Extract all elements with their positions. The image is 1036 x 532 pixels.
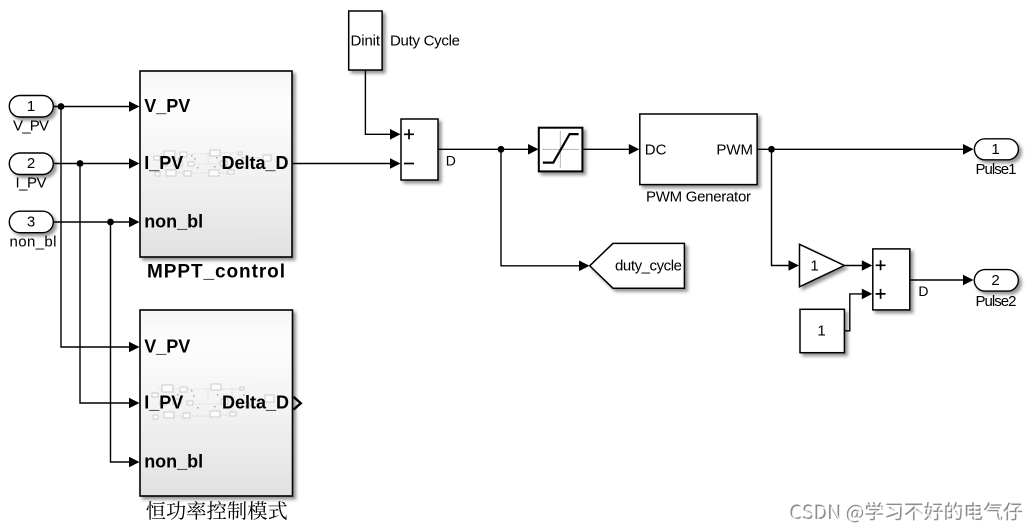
wire PWM to Pulse1: [757, 144, 973, 155]
svg-text:D: D: [446, 152, 456, 168]
outport 1 Pulse1: [974, 139, 1018, 178]
svg-text:1: 1: [27, 98, 35, 115]
wire MPPT Delta_D to Sum1 minus input: [293, 158, 401, 169]
gain block: [800, 244, 845, 286]
wire port3 branch to block2 non_bl: [111, 222, 140, 467]
wire branch to Gain: [772, 149, 800, 270]
block2 name label (Chinese): [146, 501, 286, 520]
svg-text:Dinit: Dinit: [351, 32, 381, 49]
svg-text:I_PV: I_PV: [144, 393, 183, 413]
constant Dinit: [349, 11, 382, 70]
wire port2 to MPPT I_PV: [53, 158, 140, 169]
sum Sum1: [401, 119, 438, 180]
svg-text:Duty Cycle: Duty Cycle: [390, 32, 460, 49]
svg-text:PWM: PWM: [716, 141, 753, 158]
svg-text:MPPT_control: MPPT_control: [147, 261, 285, 282]
wire branch to goto duty_cycle: [501, 149, 590, 271]
svg-text:non_bl: non_bl: [144, 452, 203, 472]
junction dot port3 branch: [107, 219, 114, 226]
subsystem MPPT_control: [140, 71, 292, 282]
saturation block: [539, 128, 583, 172]
wire Gain to Sum2: [844, 260, 872, 271]
outport 2 Pulse2: [974, 270, 1018, 310]
inport 2 I_PV: [9, 153, 53, 192]
junction dot after PWM: [768, 146, 775, 153]
wire port1 branch to block2 V_PV: [61, 107, 140, 353]
unconnected output port arrow of block2 Delta_D: [294, 397, 301, 410]
inport 3 non_bl: [9, 211, 56, 250]
svg-text:Pulse2: Pulse2: [976, 293, 1017, 310]
svg-text:Delta_D: Delta_D: [222, 393, 289, 413]
inport 1 V_PV: [9, 96, 53, 135]
svg-text:D: D: [918, 283, 928, 299]
svg-text:duty_cycle: duty_cycle: [615, 258, 682, 275]
wire port2 branch to block2 I_PV: [80, 164, 140, 409]
svg-text:I_PV: I_PV: [16, 175, 47, 192]
svg-text:non_bl: non_bl: [10, 233, 57, 250]
svg-text:2: 2: [27, 155, 35, 172]
svg-text:Delta_D: Delta_D: [221, 153, 288, 173]
svg-text:1: 1: [810, 258, 818, 275]
svg-text:I_PV: I_PV: [144, 153, 183, 173]
wire Dinit to Sum1 plus input: [365, 71, 400, 140]
wire Sum2 to Pulse2: [910, 275, 974, 286]
svg-text:2: 2: [991, 272, 999, 289]
svg-text:V_PV: V_PV: [13, 118, 49, 135]
subsystem PWM Generator: [640, 114, 757, 205]
wire port3 to MPPT non_bl: [53, 217, 140, 228]
svg-text:1: 1: [817, 322, 825, 339]
wire Constant to Sum2 lower plus: [844, 289, 872, 331]
svg-text:PWM Generator: PWM Generator: [646, 188, 751, 205]
junction dot port1 branch: [58, 103, 65, 110]
goto tag duty_cycle: [590, 243, 685, 288]
svg-text:1: 1: [991, 141, 999, 158]
svg-text:Pulse1: Pulse1: [976, 161, 1017, 178]
watermark CSDN @xuexibuhaode dianqizai: [790, 502, 1023, 524]
wire Saturation to PWM Generator: [582, 144, 639, 155]
svg-text:3: 3: [27, 214, 35, 231]
subsystem block2 constant-power control mode: [140, 310, 293, 496]
sum Sum2: [873, 249, 910, 310]
svg-text:V_PV: V_PV: [144, 96, 190, 116]
wire Sum1 to Saturation: [438, 144, 539, 155]
wire port1 to MPPT V_PV: [53, 101, 140, 112]
svg-text:DC: DC: [645, 141, 667, 158]
junction dot port2 branch: [77, 160, 84, 167]
constant 1: [800, 309, 844, 352]
junction dot after Sum1: [498, 146, 505, 153]
svg-text:non_bl: non_bl: [144, 212, 203, 232]
svg-text:V_PV: V_PV: [144, 337, 190, 357]
